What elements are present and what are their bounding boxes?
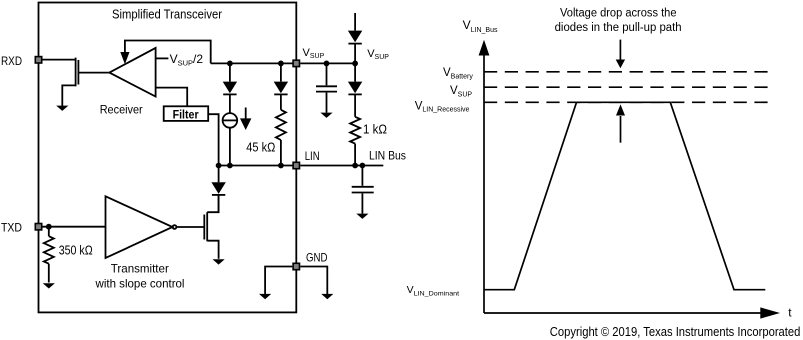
diode D4 (supply) [348,31,362,64]
node junction VSUP/diode string [352,61,358,67]
resistor R2 350 kOhm [44,227,54,283]
filter block [164,106,209,121]
svg-text:GND: GND [306,251,328,265]
wire transmitter output to Q2 gate [177,226,205,228]
node junction LIN/filter [216,163,222,169]
wire R1 to LIN rail [280,140,282,166]
wire VSUP internal rail [211,62,297,64]
svg-text:Receiver: Receiver [100,102,143,116]
pin LIN pad [293,162,299,168]
wire GND left branch [265,267,292,295]
svg-text:LIN Bus: LIN Bus [369,149,406,163]
transistor Q2 (LIN driver) [204,195,218,259]
ground (C1) [320,113,332,118]
wire Q1 gate to receiver output [78,72,109,74]
pin TXD pad [35,224,41,230]
svg-text:350 kΩ: 350 kΩ [59,243,93,257]
inverter bubble [173,225,177,229]
ground (right) [321,294,333,299]
svg-text:Copyright © 2019, Texas Instru: Copyright © 2019, Texas Instruments Inco… [550,325,801,339]
capacitor C1 [316,63,337,112]
dashed level VSUP [484,86,768,88]
y axis VLIN_Bus [479,40,490,313]
arrow feedback into receiver [120,52,129,64]
current source I1 [223,113,238,165]
waveform LIN bus trapezoid [484,102,765,289]
op-amp U2 transmitter driver [106,196,173,258]
ground (C2) [356,214,368,219]
svg-text:Simplified Transceiver: Simplified Transceiver [112,8,222,22]
node junction VSUP/C1 [324,61,330,67]
wire VSUP external rail [300,62,355,64]
resistor R1 45 kOhm [276,110,286,140]
x axis t [484,307,780,318]
diode D5 (pull-up path) [348,63,362,116]
svg-text:Filter: Filter [173,107,199,121]
node junction TXD/R2 [46,224,52,230]
wire reference input VSUP/2 [156,57,169,59]
pin VSUP pad [293,60,299,66]
wire LIN bus external [300,165,383,167]
node junction LIN/current source [227,163,233,169]
ground (left) [259,294,271,299]
wire supply feed [354,13,356,31]
ground (Q2 source) [213,259,225,264]
node junction LIN bus/R3 [352,163,358,169]
diode D3 (LIN to Q2 drain) [211,166,225,213]
ground (R2) [43,283,55,288]
transceiver box outline [39,3,297,313]
svg-text:LIN: LIN [305,149,320,163]
arrow up to recessive level [616,104,625,142]
svg-text:diodes in the pull-up path: diodes in the pull-up path [555,22,682,34]
arrow annotation down to VBattery [616,40,625,69]
dashed level VLIN_Recessive [484,101,768,103]
diode D2 (above 45k resistor) [274,63,288,109]
svg-text:TXD: TXD [1,221,22,235]
wire receiver lower input to filter [156,88,188,107]
node junction LIN bus/C2 [360,163,366,169]
ground (Q1 source) [56,106,68,111]
diode D1 (above current source) [223,63,237,113]
svg-text:with slope control: with slope control [95,276,185,290]
annotation voltage drop text [555,7,682,34]
capacitor C2 [352,166,374,214]
wire receiver feedback from VSUP rail [125,41,211,64]
node junction VSUP/diode A [227,61,233,67]
svg-text:1 kΩ: 1 kΩ [363,123,387,137]
wire LIN internal rail [219,165,297,167]
wire filter output to LIN node [208,114,218,165]
pin RXD pad [35,57,41,63]
svg-text:RXD: RXD [1,54,22,68]
wire RXD to Q1 drain [43,59,76,61]
wire GND right branch [300,267,327,295]
svg-text:Voltage drop across the: Voltage drop across the [560,7,677,19]
svg-text:Transmitter: Transmitter [111,262,169,276]
wire TXD to transmitter input [43,226,106,228]
node junction VSUP/diode B [278,61,284,67]
node junction LIN/R1 [278,163,284,169]
pin GND pad [293,263,299,269]
wire Q1 source [62,85,75,106]
transistor Q1 (RXD open-drain) [76,58,79,87]
svg-text:45 kΩ: 45 kΩ [246,141,275,155]
arrow current direction [240,108,251,131]
wire R3 to LIN bus [354,144,356,166]
op-amp U1 Receiver comparator [109,48,155,97]
label Transmitter with slope control [95,262,185,291]
dashed level VBattery [484,71,768,73]
resistor R3 1 kOhm pull-up [350,117,360,144]
